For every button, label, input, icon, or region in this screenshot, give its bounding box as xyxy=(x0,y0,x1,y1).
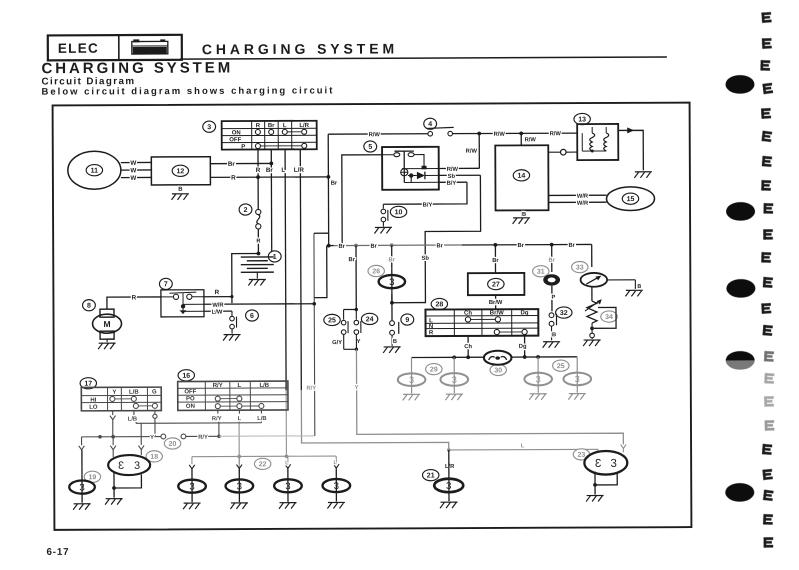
svg-text:8: 8 xyxy=(87,303,91,310)
dimmer switch table 17 xyxy=(81,387,161,411)
wire 31 to switch 32 xyxy=(551,286,553,312)
switch 6 xyxy=(231,311,233,316)
lamp 29a ground xyxy=(403,394,421,400)
main fuse switch 4 label xyxy=(424,118,437,129)
wire L to tail lamp and 23 xyxy=(449,448,598,451)
svg-text:Br: Br xyxy=(338,244,345,250)
svg-text:3: 3 xyxy=(118,460,124,472)
svg-text:28: 28 xyxy=(435,301,443,308)
lead B of 14 xyxy=(521,210,523,216)
node L-21 xyxy=(447,448,451,452)
svg-text:25: 25 xyxy=(557,363,565,370)
wire R relay to battery line xyxy=(204,296,232,298)
svg-text:CHARGING SYSTEM: CHARGING SYSTEM xyxy=(202,40,398,57)
headlight 18 label xyxy=(146,451,162,462)
lamp 22-2 ground xyxy=(230,503,248,509)
svg-text:Br: Br xyxy=(492,258,499,264)
node feed-19 xyxy=(98,435,102,439)
wire B/Y route to switch 10 xyxy=(383,182,467,204)
svg-text:17: 17 xyxy=(84,381,92,388)
svg-text:Br: Br xyxy=(268,123,275,129)
headlight 23 bracket xyxy=(595,471,617,484)
svg-text:W: W xyxy=(130,175,136,182)
svg-text:Br: Br xyxy=(549,258,556,264)
svg-text:3: 3 xyxy=(189,482,194,493)
wire L/W relay to switch 6 xyxy=(204,310,232,312)
headlight 18 bracket xyxy=(114,473,141,489)
wire L/B link 17-16 xyxy=(136,422,261,425)
svg-text:3: 3 xyxy=(237,481,242,492)
svg-text:W/R: W/R xyxy=(577,201,589,207)
svg-text:R/W: R/W xyxy=(369,132,381,138)
svg-text:34: 34 xyxy=(605,314,613,321)
lighting switch 16 label xyxy=(178,370,194,381)
wire L column drop (long) xyxy=(285,149,286,390)
wire 34 bypass loop xyxy=(594,307,616,328)
ground of relay 13 xyxy=(634,172,652,178)
wire Br column drop xyxy=(270,149,272,252)
wire R/W bus left xyxy=(328,133,427,135)
wire L drop from 16 xyxy=(238,410,240,413)
svg-text:L/B: L/B xyxy=(128,417,137,423)
svg-text:24: 24 xyxy=(366,316,374,323)
headlight 23 ground xyxy=(586,495,604,501)
svg-text:3: 3 xyxy=(334,481,339,492)
wire W/R pair to 15 xyxy=(548,194,606,196)
svg-text:Br: Br xyxy=(370,244,377,250)
svg-text:2: 2 xyxy=(244,207,248,214)
lamp 22-4 xyxy=(323,479,351,492)
svg-text:R: R xyxy=(132,294,137,301)
switch 32 xyxy=(549,313,554,318)
svg-text:B: B xyxy=(552,332,556,338)
svg-text:B/Y: B/Y xyxy=(447,181,457,187)
wire Br to lamp 26 xyxy=(391,245,393,268)
motor ground xyxy=(106,339,108,342)
svg-text:3: 3 xyxy=(536,374,541,384)
starter motor 8 label xyxy=(83,300,96,311)
svg-text:6: 6 xyxy=(250,313,254,320)
svg-text:R/W: R/W xyxy=(466,149,478,155)
connector 20 xyxy=(161,434,166,439)
voltage regulator 14 xyxy=(495,145,548,210)
wire R motor to relay 7 xyxy=(107,297,161,309)
svg-text:20: 20 xyxy=(169,441,177,448)
flasher can 30 xyxy=(484,351,512,365)
svg-text:R: R xyxy=(215,289,220,296)
node 26-Sb xyxy=(390,301,394,305)
node Ch xyxy=(466,355,470,359)
svg-text:25: 25 xyxy=(328,317,336,324)
svg-text:L: L xyxy=(281,167,285,174)
rectifier/regulator 12 xyxy=(151,157,210,185)
contacts 28 R row xyxy=(494,329,499,334)
node Br-switches xyxy=(354,244,358,248)
svg-text:Ch: Ch xyxy=(464,344,472,350)
wire lamp 22-2 lead xyxy=(238,456,240,464)
svg-text:Br/W: Br/W xyxy=(490,310,504,316)
ground of 12 xyxy=(171,194,189,200)
svg-text:Br: Br xyxy=(349,257,356,263)
node feed-18 xyxy=(111,435,115,439)
turn lamp 25a xyxy=(537,357,539,393)
lamp 25b ground xyxy=(568,394,586,400)
ground of 14 xyxy=(513,218,531,224)
svg-text:W: W xyxy=(130,167,136,174)
headlight 23 label xyxy=(573,449,589,460)
ground of 34 xyxy=(583,340,601,346)
dimmer switch 17 label xyxy=(80,378,96,389)
tail lamp 21 label xyxy=(422,470,438,481)
svg-text:R/W: R/W xyxy=(447,167,459,173)
svg-text:Br: Br xyxy=(436,243,443,249)
turn signal switch table 28 xyxy=(425,309,538,336)
headlight 18 ground xyxy=(105,499,123,505)
turn lamp 29a xyxy=(410,358,412,394)
node bus-L xyxy=(237,455,241,459)
switch 25 label xyxy=(324,314,340,325)
wire Sb route to pilot lamp 26 xyxy=(391,175,481,302)
relay 13 label xyxy=(574,113,590,124)
lamp 21 ground xyxy=(440,502,458,508)
signal bus xyxy=(411,356,484,358)
wire R/W drop to 14 xyxy=(520,133,522,145)
main switch contacts P row xyxy=(255,143,260,148)
svg-text:7: 7 xyxy=(164,281,168,288)
svg-text:15: 15 xyxy=(627,196,635,203)
turn lamp 29b xyxy=(453,357,455,393)
switch 24 xyxy=(354,320,359,325)
node bus-25a xyxy=(536,355,540,359)
resistor 34 xyxy=(587,301,597,323)
turn lamp 25 label xyxy=(553,360,569,371)
AC generator 11 xyxy=(68,151,121,189)
lamp 22-3 xyxy=(274,479,302,492)
svg-text:Sb: Sb xyxy=(448,174,456,180)
node 23 ground xyxy=(593,483,597,487)
svg-text:Y: Y xyxy=(150,435,154,441)
node Br bus start xyxy=(327,244,331,248)
svg-text:Br: Br xyxy=(389,257,396,263)
node R col xyxy=(256,175,260,179)
wire L/R column drop (long) xyxy=(300,149,301,390)
relay 5 label xyxy=(364,141,377,152)
headlight 23 ground lead xyxy=(594,485,596,495)
svg-text:3: 3 xyxy=(79,483,84,494)
wire meter to resistor 34 xyxy=(591,287,593,301)
wire riser jog xyxy=(314,232,329,234)
node bus-L2 xyxy=(285,454,289,458)
node 34 xyxy=(590,326,594,330)
svg-text:G/Y: G/Y xyxy=(332,340,342,346)
wire R/W bus right xyxy=(453,132,577,135)
wire riser to Br bus start xyxy=(327,177,329,246)
switch 10 label xyxy=(390,206,406,217)
wire lamp 26 to switch 9 xyxy=(391,295,393,321)
svg-text:27: 27 xyxy=(492,281,500,288)
svg-text:W/R: W/R xyxy=(212,303,224,309)
edge index marks xyxy=(761,12,771,23)
wire lamp 22-3 lead xyxy=(287,456,289,464)
svg-text:22: 22 xyxy=(259,461,267,468)
svg-text:L/W: L/W xyxy=(212,310,223,316)
svg-text:OFF: OFF xyxy=(229,137,241,143)
header rule xyxy=(180,57,667,59)
turn switch 28 label xyxy=(431,298,447,309)
svg-text:5: 5 xyxy=(368,144,372,151)
svg-text:19: 19 xyxy=(88,474,96,481)
svg-text:LO: LO xyxy=(89,405,98,411)
wire headlight 18 drop xyxy=(112,437,114,445)
svg-text:R/Y: R/Y xyxy=(198,435,208,441)
contacts 16 PO row xyxy=(215,396,220,401)
svg-text:R: R xyxy=(256,238,260,244)
switch 9 label xyxy=(401,314,414,325)
svg-text:Below circuit diagram shows ch: Below circuit diagram shows charging cir… xyxy=(41,85,334,97)
svg-text:3: 3 xyxy=(134,460,140,472)
wire W x3 generator to 12 xyxy=(121,161,151,163)
lamp 22-1 xyxy=(178,480,206,493)
svg-text:3: 3 xyxy=(595,458,601,470)
svg-text:Br: Br xyxy=(568,243,575,249)
svg-text:4: 4 xyxy=(428,121,432,128)
svg-text:L/B: L/B xyxy=(259,383,269,389)
svg-text:3: 3 xyxy=(446,481,451,492)
node 18 ground xyxy=(112,486,116,490)
header ELEC box xyxy=(48,35,182,61)
lighting switch table 16 xyxy=(178,381,288,410)
voltmeter 33 xyxy=(581,273,608,287)
node R end xyxy=(326,175,330,179)
svg-text:30: 30 xyxy=(494,367,502,374)
svg-text:L: L xyxy=(238,416,242,422)
lamp 22-2 xyxy=(226,479,254,492)
lamp 22-4 ground xyxy=(327,502,345,508)
main switch 3 label xyxy=(203,121,216,132)
wire G drop from 17 xyxy=(154,411,156,414)
battery 1 plates xyxy=(241,256,274,258)
relay unit 5 xyxy=(382,147,439,190)
wire lamp 22-1 lead xyxy=(191,457,193,465)
svg-text:R/W: R/W xyxy=(550,131,562,137)
svg-text:B: B xyxy=(393,339,397,345)
svg-text:18: 18 xyxy=(150,454,158,461)
position lamp 19 xyxy=(81,450,83,503)
contacts 28 L row xyxy=(465,317,470,322)
node Br-31 xyxy=(550,243,554,247)
svg-text:26: 26 xyxy=(372,268,380,275)
wire 14 output circle to relay 13 xyxy=(548,151,560,153)
svg-text:L/R: L/R xyxy=(445,464,455,470)
svg-text:R: R xyxy=(256,167,261,174)
svg-text:Dg: Dg xyxy=(519,344,527,350)
svg-text:3: 3 xyxy=(409,375,414,385)
lead B of 12 xyxy=(179,185,181,192)
svg-text:Y: Y xyxy=(355,385,359,391)
headlight 18 xyxy=(108,455,150,475)
svg-text:R/W: R/W xyxy=(494,132,506,138)
wire 34 to ground xyxy=(591,323,593,333)
switch 32 ground lead xyxy=(551,326,553,340)
flasher lamps 22 label xyxy=(254,458,270,469)
svg-text:B: B xyxy=(522,212,526,218)
svg-text:P: P xyxy=(552,295,556,301)
svg-text:R: R xyxy=(231,175,236,182)
field coil 15 xyxy=(606,187,654,211)
wire headlamp 19 drop xyxy=(81,437,83,445)
svg-text:Dg: Dg xyxy=(520,310,528,316)
node R/Y join xyxy=(217,434,221,438)
meter light 31 xyxy=(543,274,560,285)
svg-text:3: 3 xyxy=(610,458,616,470)
switch 9 ground lead xyxy=(391,335,393,346)
svg-text:B: B xyxy=(178,187,183,193)
starter relay 7 label xyxy=(159,278,172,289)
wire Sb from 5 xyxy=(439,174,481,176)
lamp 22-1 ground xyxy=(183,503,201,509)
wire R/W riser to bus xyxy=(478,134,480,169)
node W/R-R/Y xyxy=(312,302,316,306)
wire R/Y riser xyxy=(313,233,316,436)
svg-text:3: 3 xyxy=(285,481,290,492)
wire R column drop xyxy=(257,149,259,208)
svg-text:13: 13 xyxy=(578,116,586,123)
wire relay 13 to ground xyxy=(618,130,643,170)
node Dg xyxy=(523,355,527,359)
svg-text:G: G xyxy=(152,390,157,396)
svg-text:Br: Br xyxy=(266,167,274,174)
svg-text:L/R: L/R xyxy=(294,167,305,174)
node Br-27 xyxy=(493,243,497,247)
svg-text:L: L xyxy=(237,383,241,389)
switch 24 label xyxy=(361,313,377,324)
wire fuse to battery xyxy=(257,228,259,253)
contacts 17 HI row xyxy=(110,396,115,401)
svg-text:11: 11 xyxy=(91,168,99,175)
svg-text:CHARGING SYSTEM: CHARGING SYSTEM xyxy=(41,59,233,77)
connector 20 label xyxy=(164,438,180,449)
svg-text:B: B xyxy=(637,284,641,290)
svg-text:R/W: R/W xyxy=(525,137,537,143)
switch 9 ground xyxy=(383,347,401,353)
node R/W-5 xyxy=(477,132,481,136)
header battery icon xyxy=(132,40,168,54)
svg-text:3: 3 xyxy=(207,124,211,131)
meter 33 ground xyxy=(625,290,643,296)
binder hole dots xyxy=(725,75,754,94)
svg-text:Br/W: Br/W xyxy=(489,300,503,306)
wire R from 12 to R/W node xyxy=(210,176,328,179)
node battery plus xyxy=(257,252,261,256)
headlight 18 ground lead xyxy=(113,488,115,498)
lamp 19 ground xyxy=(73,504,91,510)
svg-text:L: L xyxy=(521,443,525,449)
svg-text:6-17: 6-17 xyxy=(47,547,70,558)
wire Br parallel segment xyxy=(314,246,327,298)
svg-text:N: N xyxy=(429,324,433,330)
safety relay 13 xyxy=(577,124,618,160)
svg-text:16: 16 xyxy=(182,373,190,380)
flasher relay 27 xyxy=(468,273,525,295)
position lamp 19 label xyxy=(84,471,100,482)
wire Br/W 27 to 28 xyxy=(495,295,497,309)
svg-text:21: 21 xyxy=(427,473,435,480)
svg-text:R: R xyxy=(429,330,434,336)
Br bus xyxy=(329,245,334,247)
contacts 17 LO row xyxy=(133,403,138,408)
main switch contacts ON row xyxy=(255,129,260,134)
svg-text:33: 33 xyxy=(576,264,584,271)
wire R/W riser from R node xyxy=(327,134,329,177)
svg-text:L/B: L/B xyxy=(129,390,139,396)
svg-text:R/Y: R/Y xyxy=(212,416,222,422)
svg-text:W/R: W/R xyxy=(577,194,589,200)
svg-text:M: M xyxy=(103,319,110,329)
switch 32 ground xyxy=(543,342,561,348)
wire Y to headlight 23 xyxy=(356,348,623,445)
wire Ch drop xyxy=(467,336,469,357)
svg-text:ON: ON xyxy=(186,404,195,410)
switch 9 xyxy=(390,321,395,326)
lamp 29b ground xyxy=(445,394,463,400)
contacts 16 ON row xyxy=(215,404,220,409)
svg-text:Ch: Ch xyxy=(464,311,472,317)
switch 10 xyxy=(382,204,384,208)
pilot lamp 26 label xyxy=(368,265,384,276)
svg-text:HI: HI xyxy=(90,398,96,404)
fuse 2 xyxy=(256,209,261,214)
lamp 22-3 ground xyxy=(279,503,297,509)
lamp bus 22 xyxy=(192,455,336,458)
battery ground lead xyxy=(256,272,258,278)
meter 33 label xyxy=(572,261,588,272)
svg-text:R: R xyxy=(256,123,261,129)
svg-text:ELEC: ELEC xyxy=(58,41,99,56)
wire L/B drop from 17 xyxy=(133,411,135,415)
switch 6 ground xyxy=(231,329,233,333)
wire Br to switches 25 24 xyxy=(355,245,357,309)
wire Br bus to meter 33 xyxy=(591,244,593,267)
wire Dg drop xyxy=(524,336,526,357)
fuse 2 label xyxy=(239,204,252,215)
svg-text:PO: PO xyxy=(186,396,195,402)
svg-text:Br: Br xyxy=(228,161,236,168)
wire R/Y feed continue xyxy=(219,435,315,437)
wire B/Y from 5 xyxy=(439,181,467,183)
svg-text:P: P xyxy=(241,144,245,150)
switch 25 xyxy=(341,320,346,325)
svg-text:R/Y: R/Y xyxy=(306,386,316,392)
turn lamp 29 label xyxy=(426,363,442,374)
headlight 23 xyxy=(584,451,627,475)
node Br col xyxy=(269,162,273,166)
wire Br from 12 xyxy=(210,162,271,164)
meter light 31 label xyxy=(533,266,549,277)
svg-text:B/Y: B/Y xyxy=(423,202,433,208)
svg-text:9: 9 xyxy=(405,317,409,324)
feed line left xyxy=(82,436,161,438)
svg-text:3: 3 xyxy=(575,374,580,384)
svg-text:3: 3 xyxy=(389,277,394,288)
svg-text:W: W xyxy=(130,160,136,167)
svg-text:L: L xyxy=(283,123,287,129)
wire Y drop from 17 xyxy=(112,411,114,415)
svg-text:Y: Y xyxy=(112,390,116,396)
svg-text:31: 31 xyxy=(537,269,545,276)
wire R/W from 5 xyxy=(439,167,480,169)
svg-text:R/Y: R/Y xyxy=(213,383,223,389)
wire R/Y drop from 16 xyxy=(217,410,219,413)
